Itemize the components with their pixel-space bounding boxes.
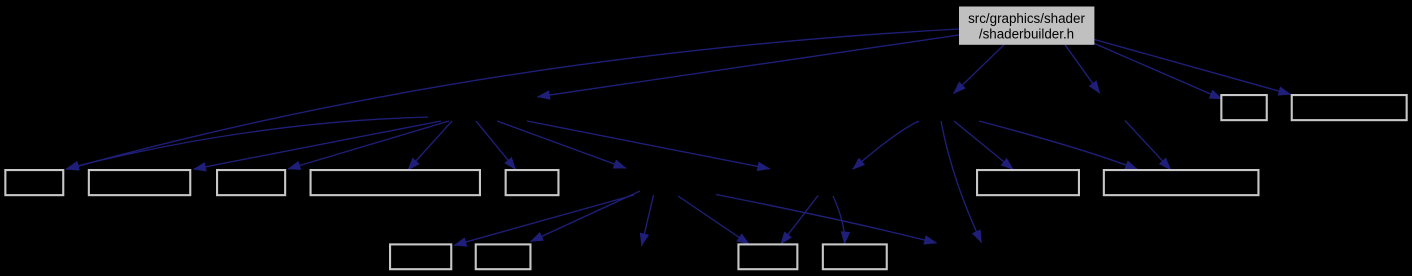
node B12 <box>738 244 797 269</box>
wire H3->B12 <box>781 196 818 245</box>
wire T->H4 <box>954 45 1005 94</box>
node B4 <box>311 170 480 195</box>
wire H2->B11 <box>531 191 640 242</box>
wire H2->B10 <box>454 195 634 245</box>
node T src/graphics/shader/shaderbuilder.h <box>959 7 1094 45</box>
node B9 <box>1292 95 1407 120</box>
wire H2->B12 <box>678 196 749 244</box>
node B13 <box>823 244 887 269</box>
node B1 <box>5 170 63 195</box>
wire H1->B1 <box>67 117 429 169</box>
wire T->H1 <box>538 35 960 97</box>
wire H1->H3 <box>527 121 770 169</box>
wire H1->B2 <box>194 121 442 169</box>
wire H4->B7 <box>979 121 1138 169</box>
svg-text:src/graphics/shader: src/graphics/shader <box>968 11 1085 26</box>
wire T->B9 <box>1094 40 1290 95</box>
wire H2->Z2 <box>716 195 937 244</box>
node B7 <box>1104 170 1259 195</box>
node B3 <box>217 170 285 195</box>
wire H1->B3 <box>288 121 449 169</box>
wire T->B8 <box>1094 44 1222 100</box>
wire H1->B4 <box>408 121 452 170</box>
node B2 <box>89 170 190 195</box>
svg-text:/shaderbuilder.h: /shaderbuilder.h <box>979 27 1074 42</box>
wire H1->B5 <box>476 121 516 170</box>
node B10 <box>390 244 451 269</box>
wire T->B1 <box>67 29 960 169</box>
node B6 <box>977 170 1079 195</box>
wire H3->B13 <box>833 196 845 244</box>
wire H4->Z3 <box>941 121 982 243</box>
node B5 <box>506 170 559 195</box>
wire H4->B6 <box>954 121 1013 170</box>
node B11 <box>476 244 531 269</box>
node B8 <box>1221 95 1266 120</box>
wire H4->H3 <box>853 121 919 169</box>
wire H2->Z1 <box>642 195 654 246</box>
wire H1->H2 <box>497 121 626 168</box>
wire T->H5 <box>1065 45 1100 94</box>
wire H5->B7 <box>1125 121 1171 170</box>
